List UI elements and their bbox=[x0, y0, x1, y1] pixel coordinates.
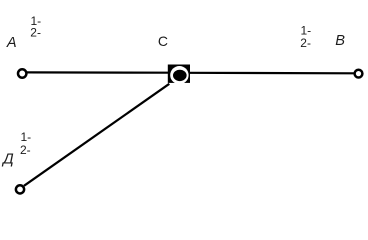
terminal D bbox=[16, 185, 24, 193]
label A bbox=[6, 35, 17, 51]
svg-text:1-: 1- bbox=[21, 130, 32, 144]
label C bbox=[158, 33, 168, 49]
pin labels B 1- 2- bbox=[300, 23, 311, 50]
terminal A bbox=[18, 69, 26, 77]
svg-text:В: В bbox=[335, 33, 345, 49]
svg-text:Д: Д bbox=[1, 150, 14, 167]
svg-text:2-: 2- bbox=[30, 25, 41, 39]
svg-text:C: C bbox=[158, 33, 168, 49]
terminal B bbox=[355, 70, 363, 78]
label B bbox=[335, 33, 345, 49]
pin labels D 1- 2- bbox=[20, 130, 31, 157]
node C bbox=[168, 65, 190, 85]
wire D-C bbox=[24, 84, 169, 186]
pin labels A 1- 2- bbox=[30, 14, 41, 39]
wire A-C bbox=[27, 71, 172, 73]
svg-text:A: A bbox=[6, 35, 17, 51]
wire C-B bbox=[186, 72, 354, 75]
svg-text:2-: 2- bbox=[20, 143, 31, 157]
label D bbox=[1, 150, 14, 167]
svg-text:2-: 2- bbox=[300, 36, 311, 50]
